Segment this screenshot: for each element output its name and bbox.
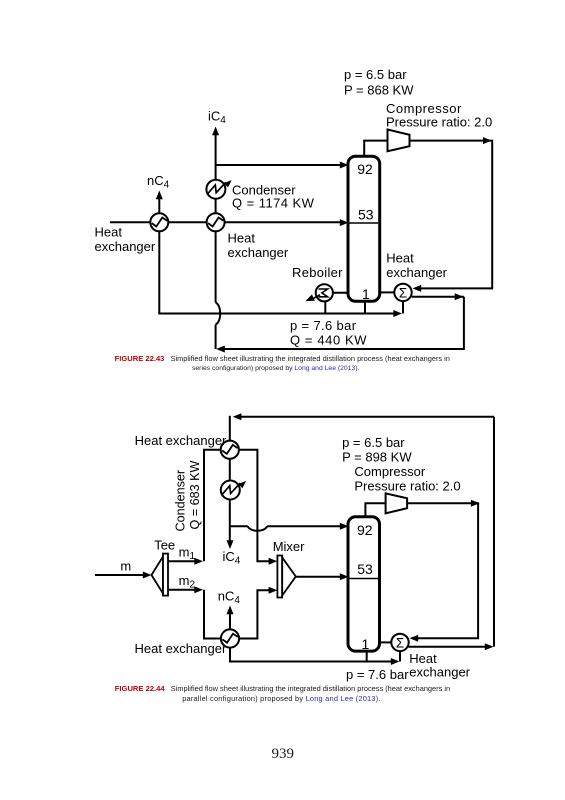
arrow at compressor discharge corner	[471, 500, 480, 507]
wire: top product line to column stage 92	[216, 164, 341, 166]
wire: mixer outlet to column 53	[296, 576, 341, 578]
svg-text:iC4: iC4	[208, 108, 226, 126]
wire: sigma-HX to column	[380, 641, 392, 643]
svg-text:exchanger: exchanger	[409, 665, 470, 680]
arrow at sigma-HX outlet corner	[455, 293, 464, 300]
column C2 (distillation column)	[348, 517, 380, 651]
heat exchanger HX1 (left)	[150, 213, 168, 231]
compressor K2	[386, 493, 408, 513]
tee splitter (triangle + bar)	[152, 554, 169, 596]
wire: from bottom HX right up to mixer lower port	[239, 590, 270, 638]
svg-text:Compressor: Compressor	[354, 464, 425, 479]
page number	[272, 746, 295, 763]
wire: m1 line	[168, 560, 195, 562]
wire: sigma-HX outlet right, down, and long return to HX2 bottom	[224, 297, 464, 349]
arrow into mixer upper port	[269, 558, 278, 565]
caption figure 22.43 line 2	[192, 365, 359, 372]
compressor K1	[388, 130, 410, 152]
svg-text:1: 1	[362, 636, 370, 652]
svg-text:iC4: iC4	[223, 549, 241, 567]
svg-text:53: 53	[357, 561, 373, 577]
svg-text:exchanger: exchanger	[95, 239, 156, 254]
arrow into column at stage 92	[340, 162, 349, 169]
wire: sigma-HX to column	[380, 291, 394, 293]
wire: sigma-HX outlet right and up outer riser	[408, 417, 494, 647]
svg-text:Heat: Heat	[95, 224, 123, 239]
wire: reboiler to column	[326, 292, 349, 294]
wire: branch to column 92 with hop over right riser	[230, 526, 341, 531]
wire: left riser from m1 up to top heat exchanger	[204, 450, 221, 562]
arrow into sigma-HX bottom stub	[391, 658, 400, 665]
caption figure 22.43 line 1	[115, 354, 450, 363]
svg-text:nC4: nC4	[218, 589, 241, 607]
bottom heat exchanger (fig2)	[221, 629, 239, 647]
arrow into column at stage 92	[340, 523, 349, 530]
top heat exchanger (fig2)	[221, 441, 239, 459]
arrow iC4 (down)	[227, 540, 234, 549]
internal tray line at stage 53	[350, 222, 379, 224]
arrow m1 into left riser	[194, 558, 203, 565]
arrow of return line into vertical (left)	[216, 346, 225, 353]
svg-text:p = 7.6 bar: p = 7.6 bar	[346, 667, 409, 682]
mixer (bar + triangle)	[277, 556, 295, 598]
wire: main vertical through condenser/HX2 with hop over bottom line	[216, 134, 221, 350]
wire: compressor discharge right, down, and into sigma-HX	[410, 141, 493, 289]
internal tray line at stage 53	[350, 578, 379, 580]
svg-text:Σ: Σ	[399, 285, 407, 300]
arrow at compressor discharge corner	[483, 137, 492, 144]
svg-text:p = 6.5 bar: p = 6.5 bar	[344, 67, 407, 82]
wire: column bottom stub	[366, 650, 368, 662]
arrow m2 into left downcomer	[194, 586, 203, 593]
svg-text:p = 7.6 bar: p = 7.6 bar	[290, 318, 357, 333]
svg-text:Pressure ratio: 2.0: Pressure ratio: 2.0	[386, 115, 492, 130]
wire: right riser from top HX down to mixer upper port	[239, 450, 270, 562]
svg-text:Mixer: Mixer	[273, 539, 305, 554]
svg-text:m: m	[120, 559, 131, 574]
svg-text:Heat exchanger: Heat exchanger	[135, 433, 227, 448]
arrow of top return into HX corner	[233, 413, 242, 420]
svg-text:Heat exchanger: Heat exchanger	[135, 641, 227, 656]
svg-text:92: 92	[357, 522, 373, 538]
svg-text:Σ: Σ	[396, 635, 404, 650]
wire: column top riser to compressor inlet	[364, 141, 387, 157]
caption figure 22.44 line 2	[182, 694, 380, 703]
wire: column bottom stub	[364, 300, 366, 314]
wire: bottom HX down and bottom header to sigma-HX stub	[230, 648, 392, 662]
arrow into sigma-HX right side	[410, 635, 419, 642]
reboiler (circle with SW arrow and sigma zigzag)	[304, 284, 333, 304]
svg-text:53: 53	[358, 206, 374, 222]
wire: compressor discharge right and down into sigma-HX	[407, 503, 478, 638]
wire: m feed line	[95, 574, 144, 576]
svg-text:nC4: nC4	[147, 173, 170, 191]
svg-text:92: 92	[357, 161, 373, 177]
wire: nC4 stub up from bottom HX	[229, 613, 231, 630]
svg-text:exchanger: exchanger	[228, 245, 289, 260]
arrow into mixer lower port	[269, 587, 278, 594]
wire: m2 line	[168, 589, 195, 591]
wire: sigma-HX bottom stub	[402, 298, 404, 314]
sigma heat exchanger (right of column bottom)	[394, 284, 411, 301]
arrow nC4 product (up)	[156, 191, 163, 200]
svg-text:Reboiler: Reboiler	[292, 265, 343, 280]
caption figure 22.44 line 1	[115, 684, 450, 693]
wire: column top riser to compressor	[365, 503, 385, 517]
wire: HX1 down and bottom header line (y=313.5)	[159, 222, 394, 313]
svg-text:Heat: Heat	[386, 251, 414, 266]
svg-text:m1: m1	[179, 545, 196, 563]
svg-text:P = 898 KW: P = 898 KW	[342, 449, 412, 464]
wire: feed line into heat exchangers (y=222)	[110, 221, 341, 223]
svg-text:1: 1	[362, 286, 370, 302]
svg-text:m2: m2	[179, 573, 196, 591]
svg-text:Pressure ratio: 2.0: Pressure ratio: 2.0	[354, 478, 460, 493]
arrow into sigma-HX right side	[413, 285, 422, 292]
wire: top return line from outer riser to top heat exchanger	[230, 416, 494, 441]
wire: nC4 product stub (up from HX1)	[158, 198, 160, 214]
arrow into column at stage 53	[340, 573, 349, 580]
svg-text:Condenser: Condenser	[174, 470, 188, 532]
wire: left downcomer from m2 to bottom heat exchanger	[204, 590, 221, 639]
svg-text:Q = 440 KW: Q = 440 KW	[290, 332, 367, 347]
sigma heat exchanger (fig2)	[391, 634, 408, 651]
arrow into sigma-HX bottom stub	[393, 310, 402, 317]
condenser (fig2, circle with NE arrow)	[221, 479, 248, 500]
svg-text:exchanger: exchanger	[386, 265, 447, 280]
heat exchanger HX2 (middle)	[207, 213, 225, 231]
wire: sigma-HX bottom stub	[399, 648, 401, 662]
svg-text:Tee: Tee	[154, 537, 175, 552]
arrow into column at stage 53	[340, 219, 349, 226]
arrow nC4 (up)	[227, 606, 234, 615]
wire: vertical between top HX and condenser, and below condenser	[229, 450, 231, 542]
condenser (circle with NE arrow)	[206, 178, 233, 199]
arrow at sigma-HX outlet into outer riser	[485, 643, 494, 650]
svg-text:Heat: Heat	[228, 230, 256, 245]
svg-text:P = 868 KW: P = 868 KW	[344, 82, 414, 97]
wire: reboiler bottom stub	[324, 297, 326, 314]
svg-text:Q = 1174 KW: Q = 1174 KW	[232, 196, 315, 211]
arrow m into tee	[143, 572, 152, 579]
svg-text:Q = 683 KW: Q = 683 KW	[188, 460, 202, 529]
column C1 (distillation column)	[348, 156, 380, 301]
arrow iC4 product (up)	[212, 127, 219, 136]
svg-text:p = 6.5 bar: p = 6.5 bar	[342, 435, 405, 450]
